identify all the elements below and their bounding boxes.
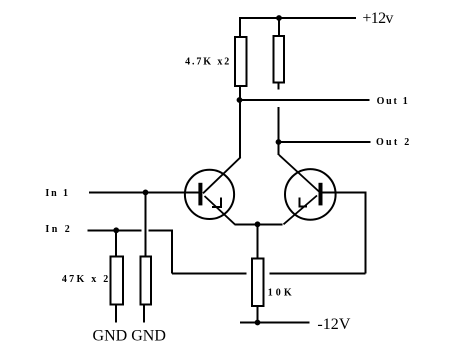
node junction dot In 1 xyxy=(143,190,149,196)
svg-text:10K: 10K xyxy=(268,287,292,298)
wire R2 top lead xyxy=(278,18,280,36)
wire In 1 line xyxy=(89,191,200,193)
wire R2 bottom stub xyxy=(278,83,280,90)
transistor Q1 emitter arrow xyxy=(212,198,222,207)
wire R1 bottom lead xyxy=(239,86,241,100)
node junction dot emitters xyxy=(255,221,261,227)
wire In 1 junction vertical to R4 xyxy=(145,192,147,257)
wire Q1 emitter diagonal xyxy=(205,196,235,224)
wire Q1 collector vertical xyxy=(239,100,241,158)
transistor Q2 base bar xyxy=(319,183,323,206)
wire Out 1 line xyxy=(239,99,370,101)
svg-text:In 1: In 1 xyxy=(45,188,68,199)
node junction dot In 2 xyxy=(113,227,119,233)
wire -12V line xyxy=(240,322,309,324)
svg-text:GND GND: GND GND xyxy=(93,327,166,344)
resistor R1 4.7K left body xyxy=(235,37,247,86)
resistor R4 47K right body xyxy=(141,257,152,305)
wire In 2 feedback vertical down xyxy=(171,229,173,273)
wire R4 bottom lead xyxy=(143,305,145,323)
wire R5 top lead xyxy=(257,224,259,259)
svg-text:+12v: +12v xyxy=(362,10,393,27)
resistor R2 4.7K right body xyxy=(274,36,285,83)
wire R1 top lead xyxy=(239,17,241,37)
wire Q2 base wire xyxy=(321,191,367,193)
node junction dot Out 1 xyxy=(237,97,243,103)
svg-text:-12V: -12V xyxy=(317,316,350,333)
wire Q2 emitter diagonal xyxy=(284,196,318,225)
wire In 2 line left segment xyxy=(88,229,142,231)
wire In 2 line right segment xyxy=(149,229,173,231)
wire R5 bottom lead xyxy=(257,306,259,323)
wire Q1 collector diagonal xyxy=(203,157,241,193)
node junction dot +12v/R2 xyxy=(276,15,282,21)
transistor Q1 circle xyxy=(185,170,234,219)
resistor R5 10K body xyxy=(252,259,264,307)
wire Q2 collector vertical xyxy=(278,107,280,155)
wire Q2 collector diagonal xyxy=(279,155,320,192)
wire feedback horizontal left of R5 xyxy=(172,273,246,275)
transistor Q2 emitter arrow xyxy=(299,198,308,207)
wire R3 bottom lead xyxy=(115,305,117,323)
wire emitter horizontal xyxy=(235,223,283,225)
transistor Q1 base bar xyxy=(198,183,202,206)
resistor R3 47K left body xyxy=(111,257,124,305)
node junction dot Out 2 xyxy=(276,139,282,145)
node junction dot -12V xyxy=(255,320,261,326)
wire Out 2 line xyxy=(279,141,371,143)
transistor Q2 circle xyxy=(285,169,336,220)
wire feedback vertical up to Q2 base xyxy=(365,192,367,273)
wire feedback horizontal right of R5 xyxy=(270,273,366,275)
wire +12v rail xyxy=(239,17,356,19)
wire In 2 junction vertical to R3 xyxy=(115,230,117,257)
